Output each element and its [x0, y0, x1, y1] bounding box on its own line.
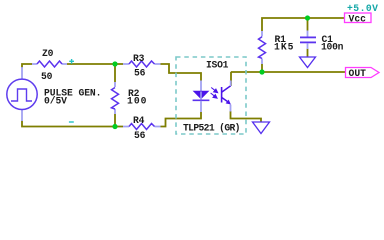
- svg-text:100n: 100n: [321, 41, 344, 52]
- resistor R2: [112, 82, 119, 114]
- svg-text:Z0: Z0: [42, 48, 54, 59]
- wire R1 bottom to OUT junction: [261, 64, 263, 72]
- wire Z0 right to junction A: [67, 63, 123, 65]
- junction node +5V rail: [305, 15, 310, 20]
- minus polarity mark: [69, 121, 74, 123]
- capacitor C1: [300, 31, 316, 50]
- junction node top-left: [112, 61, 117, 66]
- optocoupler ISO1 dashed boundary: [176, 57, 246, 134]
- wire C1 top stub: [307, 18, 309, 31]
- svg-text:R3: R3: [133, 53, 145, 64]
- ISO1 phototransistor: [222, 81, 231, 112]
- port OUT: [346, 68, 380, 80]
- svg-text:Vcc: Vcc: [349, 13, 367, 24]
- resistor R1: [259, 31, 266, 64]
- junction node bottom-left: [112, 124, 117, 129]
- wire emitter to ground: [231, 111, 262, 122]
- svg-text:TLP521 (GR): TLP521 (GR): [183, 123, 241, 134]
- resistor R4: [123, 124, 161, 130]
- ground at emitter: [253, 122, 270, 134]
- svg-text:OUT: OUT: [349, 68, 367, 79]
- wire R3 right jog into optocoupler anode: [161, 64, 202, 81]
- svg-text:56: 56: [134, 130, 146, 141]
- wire C1 bottom to ground: [307, 49, 309, 57]
- ISO1 light arrows: [211, 88, 218, 99]
- wire +5V rail: [262, 18, 345, 31]
- svg-text:100: 100: [127, 95, 147, 106]
- svg-text:50: 50: [41, 71, 53, 82]
- ISO1 LED: [193, 81, 210, 113]
- svg-text:R4: R4: [133, 115, 145, 126]
- svg-text:56: 56: [134, 68, 146, 79]
- plus polarity mark: [69, 59, 74, 64]
- wire collector to OUT rail: [230, 72, 232, 86]
- junction node OUT rail: [259, 69, 264, 74]
- resistor R3: [123, 61, 161, 67]
- port Vcc: [345, 13, 372, 24]
- pulse generator V1: [7, 67, 37, 121]
- wire R2 bottom stub: [114, 114, 116, 127]
- ground under C1: [300, 57, 316, 68]
- wire bottom rail generator to R4: [22, 121, 123, 127]
- svg-text:ISO1: ISO1: [206, 60, 229, 71]
- resistor Z0: [32, 61, 67, 67]
- svg-text:0/5V: 0/5V: [44, 95, 67, 106]
- svg-text:1K5: 1K5: [274, 41, 294, 52]
- wire OUT rail: [231, 71, 346, 73]
- wire R2 top stub: [114, 64, 116, 82]
- wire R4 right jog to optocoupler cathode: [161, 112, 202, 127]
- wire top-left corner from generator to Z0: [22, 64, 32, 68]
